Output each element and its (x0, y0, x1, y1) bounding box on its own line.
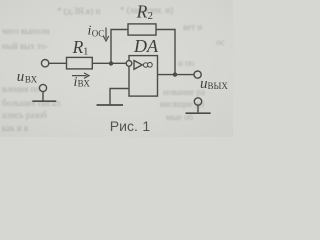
svg-text:ались разоб: ались разоб (2, 110, 47, 120)
svg-text:вления по: вления по (2, 84, 40, 94)
svg-text:Рис.: Рис. (110, 118, 138, 134)
svg-text:2: 2 (148, 10, 154, 22)
svg-text:ВХ: ВХ (25, 74, 38, 84)
output terminal (u_vyx, upper-right) (194, 71, 201, 78)
wire: non-inverting input (110, 89, 129, 105)
svg-text:1: 1 (142, 118, 150, 134)
wire: op-amp output to terminal (158, 74, 195, 76)
node A (inverting-input junction) (109, 61, 113, 65)
svg-text:* (д.ЗЯ.в) н: * (д.ЗЯ.в) н (57, 6, 100, 16)
current arrow i_vx (72, 73, 89, 78)
node B (output junction) (173, 72, 177, 76)
svg-text:u: u (17, 69, 25, 85)
wire: feedback riser from node A to R2 (111, 30, 128, 64)
svg-text:ос: ос (216, 37, 225, 47)
op-amp DA body (129, 56, 158, 97)
wire: R2 down to node B (156, 30, 175, 75)
resistor R1 (67, 57, 93, 69)
svg-text:вет и: вет и (183, 22, 202, 32)
svg-text:ный вых то-: ный вых то- (2, 41, 48, 51)
op-amp inverting-input bubble (126, 61, 132, 67)
op-amp infinity gain symbol (143, 62, 152, 67)
output common terminal (lower-right) (186, 98, 211, 113)
input terminal (u_vx, upper-left) (41, 60, 48, 67)
svg-text:ОС: ОС (92, 29, 105, 39)
svg-text:нование ра: нование ра (163, 87, 205, 97)
scanned paper background (0, 0, 233, 137)
svg-text:и по: и по (178, 58, 195, 68)
op-amp triangle symbol (134, 61, 142, 70)
resistor R2 (128, 24, 156, 35)
wire: R1 to node A (92, 62, 126, 64)
svg-text:DA: DA (133, 36, 159, 56)
svg-text:1: 1 (83, 46, 89, 58)
input common terminal (lower-left) (32, 84, 56, 101)
caption: figure title (110, 118, 151, 134)
svg-text:чего выполн: чего выполн (2, 26, 50, 36)
wire: input terminal to R1 (49, 62, 67, 64)
svg-text:ВЫХ: ВЫХ (208, 81, 229, 91)
svg-text:R: R (136, 1, 148, 21)
svg-text:u: u (200, 76, 208, 92)
svg-text:ВХ: ВХ (78, 79, 91, 89)
svg-text:R: R (72, 37, 84, 57)
current arrow i_oc (103, 28, 108, 42)
svg-text:как и в: как и в (2, 123, 28, 133)
svg-text:больших писал: больших писал (2, 98, 61, 108)
ground (non-inverting input common) (97, 104, 124, 106)
